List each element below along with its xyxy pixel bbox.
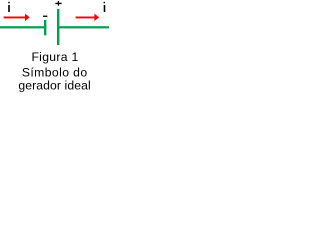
current label i (left) (8, 2, 10, 12)
plus polarity label (55, 1, 61, 6)
current arrow (right) (76, 14, 100, 21)
battery positive plate (tall) (57, 9, 59, 45)
svg-text:gerador ideal: gerador ideal (18, 79, 90, 93)
battery negative plate (short) (44, 20, 46, 35)
minus polarity label (43, 16, 47, 17)
current arrow (left) (4, 14, 30, 21)
wire right lead (59, 26, 109, 28)
svg-text:Símbolo do: Símbolo do (22, 65, 88, 79)
svg-text:Figura 1: Figura 1 (31, 50, 78, 64)
wire left lead (0, 26, 44, 28)
current label i (right) (104, 2, 106, 12)
